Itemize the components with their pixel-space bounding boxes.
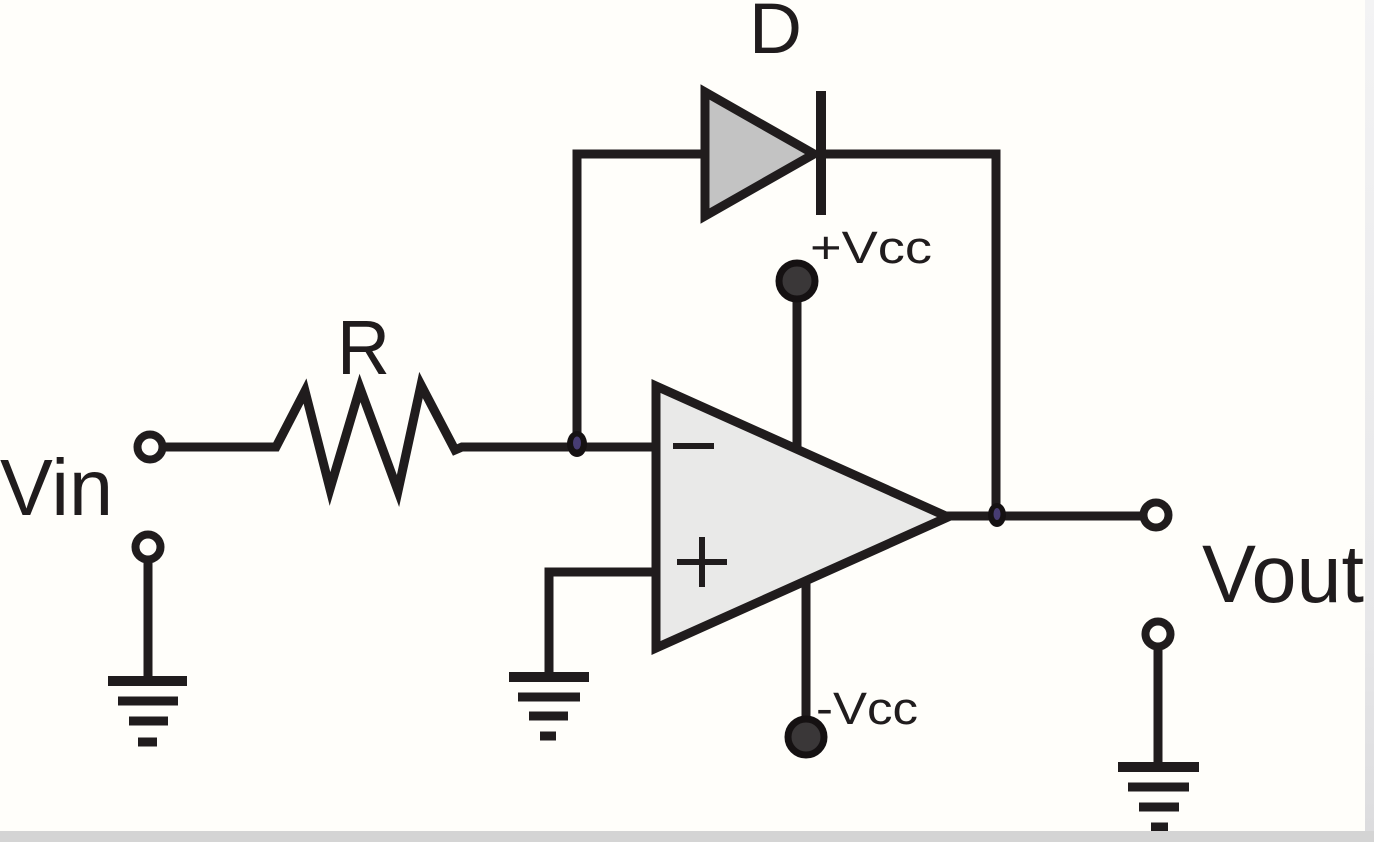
terminal Vout (open circle): [1144, 503, 1169, 528]
label +Vcc: [810, 222, 932, 273]
svg-text:+Vcc: +Vcc: [810, 222, 932, 273]
label Vin: [0, 443, 113, 532]
op-amp U1: [656, 386, 948, 648]
wire: -Vcc supply from op-amp: [802, 578, 811, 722]
label D: [749, 0, 802, 69]
wire: Vin terminal through resistor R to inverting input: [164, 385, 652, 491]
terminal: output ground terminal circle: [1146, 622, 1171, 647]
-Vcc supply dot: [788, 719, 824, 755]
label -Vcc: [816, 683, 918, 734]
node B: output junction: [988, 503, 1006, 527]
wire: non-inverting input to ground: [549, 572, 652, 678]
resistor R label: [337, 305, 390, 391]
ground (input): [108, 681, 187, 742]
svg-text:Vin: Vin: [0, 443, 113, 532]
terminal: input ground terminal circle: [136, 535, 161, 560]
wire: feedback left vertical + horizontal to diode anode: [577, 154, 706, 446]
terminal Vin (open circle): [138, 435, 163, 460]
svg-text:D: D: [749, 0, 802, 69]
wire: op-amp output to Vout terminal: [946, 512, 1142, 521]
ground (non-inverting input): [509, 677, 589, 736]
scrollbar strip bottom: [0, 831, 1374, 842]
svg-text:R: R: [337, 305, 390, 391]
op-amp plus input symbol: [677, 537, 727, 587]
node A: inverting input junction: [567, 431, 587, 457]
op-amp minus input symbol: [673, 443, 714, 449]
diode D cathode bar: [816, 91, 826, 215]
diode D (triangle): [705, 92, 814, 216]
wire: +Vcc supply to op-amp: [793, 290, 802, 452]
wire: input ground stem: [144, 560, 153, 678]
scrollbar strip right: [1365, 0, 1374, 831]
wire: output ground stem: [1154, 647, 1163, 768]
+Vcc supply dot: [779, 263, 815, 299]
svg-text:-Vcc: -Vcc: [816, 683, 918, 734]
svg-text:Vout: Vout: [1202, 529, 1364, 620]
wire: diode cathode to right vertical, down to output node: [821, 154, 996, 516]
label Vout: [1202, 529, 1364, 620]
ground (output): [1118, 767, 1199, 827]
